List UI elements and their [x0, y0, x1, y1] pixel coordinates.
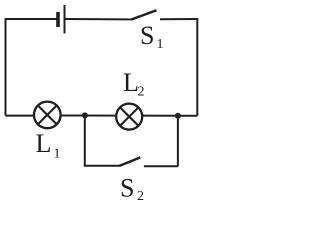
battery B1 long thin plate	[64, 5, 66, 34]
svg-text:S: S	[140, 21, 154, 50]
wire: node B to right corner	[177, 115, 197, 117]
wire: node A down to S2 branch	[84, 116, 86, 166]
node B junction dot	[175, 113, 181, 119]
label S2	[120, 173, 144, 204]
wire right side	[196, 18, 198, 116]
svg-text:2: 2	[137, 189, 144, 204]
wire left side	[5, 18, 7, 116]
svg-text:S: S	[120, 173, 134, 202]
wire: S2 branch bottom-left to S2 pivot	[84, 165, 120, 167]
label L1	[36, 129, 61, 161]
wire bottom branch: left corner to L1	[6, 115, 36, 117]
switch S2 blade	[119, 157, 140, 166]
wire: node A to L2	[84, 115, 117, 117]
svg-text:1: 1	[157, 37, 164, 52]
switch S1 blade	[131, 10, 157, 19]
node A junction dot	[82, 112, 88, 118]
wire top-left: left corner to battery	[6, 18, 58, 20]
label L2	[123, 68, 145, 100]
wire: battery to switch S1 pivot	[65, 18, 132, 20]
wire: S1 contact to top-right corner	[160, 18, 197, 20]
lamp L2	[116, 104, 142, 130]
svg-text:L: L	[123, 68, 139, 97]
battery B1 short thick plate	[56, 12, 60, 27]
wire: S2 contact to branch right corner	[144, 165, 178, 167]
wire: L2 to node B	[141, 115, 178, 117]
svg-text:1: 1	[54, 147, 61, 162]
svg-text:2: 2	[138, 85, 145, 100]
svg-text:L: L	[36, 129, 52, 158]
wire: branch right corner up to node B	[177, 116, 179, 167]
lamp L1	[34, 102, 61, 129]
wire: L1 to node A	[60, 115, 86, 117]
label S1	[140, 21, 164, 52]
